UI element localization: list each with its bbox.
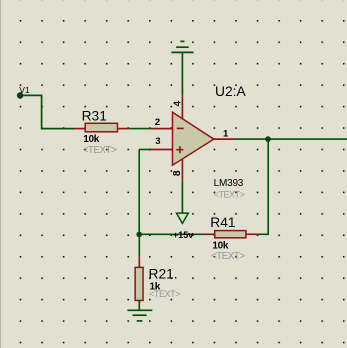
- resistor R41: [203, 231, 259, 238]
- wire junction to R21: [138, 235, 140, 256]
- pin number 3: [155, 136, 160, 147]
- node V1: [17, 93, 23, 99]
- pin 3 stub: [151, 149, 173, 151]
- svg-text:LM393: LM393: [214, 178, 244, 189]
- svg-text:2: 2: [155, 117, 160, 128]
- junction output: [265, 136, 271, 142]
- svg-text:R31: R31: [82, 109, 107, 124]
- resistor R31: [74, 123, 130, 132]
- svg-text:10k: 10k: [83, 134, 100, 145]
- label R41: [210, 215, 235, 230]
- svg-text:4: 4: [172, 101, 183, 107]
- label R31: [82, 109, 107, 124]
- wire ground to pin 4: [181, 53, 183, 95]
- wire V1 to R31: [22, 95, 74, 128]
- wire junction to R41: [141, 233, 203, 235]
- pin number 1: [223, 129, 229, 140]
- resistor R21: [135, 256, 143, 300]
- value 10k (R31): [83, 134, 100, 145]
- label U2:A: [215, 84, 246, 99]
- svg-text:R21.: R21.: [149, 267, 178, 282]
- svg-text:<TEXT>: <TEXT>: [149, 289, 180, 299]
- property TEXT (R41): [211, 251, 245, 262]
- wire pin 3 horizontal: [139, 149, 151, 151]
- wire output to right edge: [235, 138, 347, 140]
- pin number 8 (rotated): [172, 170, 183, 176]
- svg-text:<TEXT>: <TEXT>: [214, 189, 245, 199]
- svg-text:V1: V1: [19, 85, 30, 95]
- ground (top): [171, 41, 193, 52]
- label V1: [19, 85, 30, 95]
- pin number 4 (rotated): [172, 101, 183, 107]
- svg-text:<TEXT>: <TEXT>: [211, 251, 245, 262]
- ground (bottom): [127, 310, 152, 321]
- wire output junction down to R41: [259, 140, 269, 234]
- property TEXT (R21): [149, 289, 180, 299]
- wire R31 to pin 2: [129, 128, 151, 130]
- label R21.: [149, 267, 178, 282]
- svg-text:R41: R41: [210, 215, 235, 230]
- property TEXT (R31): [83, 145, 117, 156]
- pin 4 stub: [181, 95, 183, 119]
- svg-text:1: 1: [223, 129, 229, 140]
- power terminal arrow: [177, 213, 189, 223]
- svg-text:<TEXT>: <TEXT>: [83, 145, 117, 156]
- pin 1 stub: [214, 138, 235, 140]
- pin 8 stub: [181, 159, 183, 181]
- value 1k (R21): [150, 282, 161, 293]
- pin number 2: [155, 117, 160, 128]
- svg-text:U2:A: U2:A: [215, 84, 246, 99]
- label +15v: [173, 230, 193, 240]
- svg-text:8: 8: [172, 170, 183, 176]
- property TEXT (U2): [214, 189, 245, 199]
- wire pin 8 to power terminal: [181, 181, 183, 213]
- junction R21/R41: [136, 232, 142, 238]
- wire R21 to ground: [138, 301, 140, 311]
- wire pin3 down to junction: [138, 150, 140, 235]
- op-amp U2:A: [173, 112, 214, 165]
- pin 2 stub: [151, 128, 173, 130]
- value 10k (R41): [212, 241, 229, 252]
- svg-text:+15v: +15v: [173, 230, 193, 240]
- label LM393: [214, 178, 244, 189]
- svg-text:3: 3: [155, 136, 160, 147]
